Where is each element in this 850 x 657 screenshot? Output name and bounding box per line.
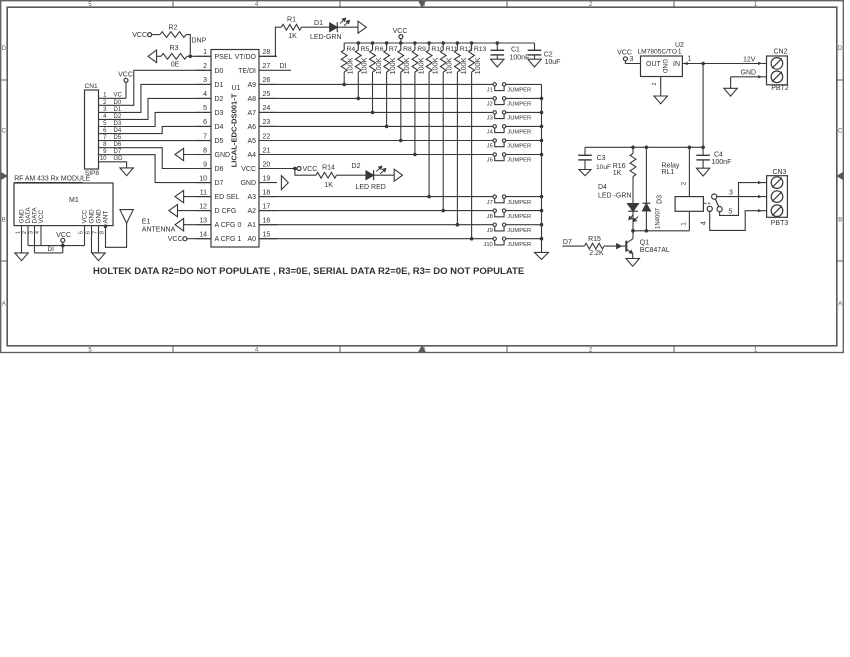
svg-text:100K: 100K	[374, 57, 383, 74]
svg-text:2: 2	[203, 63, 207, 70]
svg-text:D7: D7	[563, 239, 572, 246]
svg-text:JUMPER: JUMPER	[507, 228, 531, 234]
svg-text:ANT: ANT	[103, 211, 110, 224]
svg-text:D7: D7	[215, 180, 224, 187]
svg-text:B: B	[2, 218, 6, 224]
svg-text:A7: A7	[247, 110, 256, 117]
svg-text:GND: GND	[661, 59, 668, 74]
svg-text:R10: R10	[431, 46, 444, 53]
svg-text:3: 3	[29, 231, 35, 234]
svg-text:4: 4	[701, 221, 708, 225]
svg-text:100K: 100K	[360, 57, 369, 74]
svg-text:R1: R1	[287, 17, 296, 24]
svg-text:J3: J3	[487, 116, 493, 122]
svg-text:GND: GND	[215, 152, 231, 159]
svg-text:ED SEL: ED SEL	[215, 194, 240, 201]
svg-text:VCC: VCC	[132, 32, 147, 39]
svg-text:R6: R6	[375, 46, 384, 53]
svg-text:C: C	[2, 129, 7, 135]
svg-text:VCC: VCC	[118, 72, 133, 79]
svg-text:M1: M1	[69, 197, 79, 204]
svg-text:TE/DI: TE/DI	[238, 68, 256, 75]
svg-text:22: 22	[263, 133, 271, 140]
svg-text:100nF: 100nF	[712, 159, 732, 166]
svg-text:10: 10	[199, 175, 207, 182]
svg-text:D1: D1	[215, 82, 224, 89]
svg-text:6: 6	[86, 231, 92, 234]
svg-text:VCC: VCC	[241, 166, 256, 173]
svg-text:2: 2	[22, 231, 28, 234]
svg-text:LED -GRN: LED -GRN	[598, 192, 631, 199]
svg-text:8: 8	[100, 231, 106, 234]
svg-text:R12: R12	[460, 46, 473, 53]
svg-text:A6: A6	[247, 124, 256, 131]
svg-text:D CFG: D CFG	[215, 208, 237, 215]
svg-text:JUMPER: JUMPER	[507, 200, 531, 206]
svg-text:JUMPER: JUMPER	[507, 102, 531, 108]
svg-text:D1: D1	[314, 20, 323, 27]
svg-text:JUMPER: JUMPER	[507, 158, 531, 164]
svg-text:DNP: DNP	[192, 38, 207, 45]
svg-text:1: 1	[16, 231, 22, 234]
svg-text:PBT2: PBT2	[771, 85, 789, 92]
svg-text:5: 5	[203, 105, 207, 112]
svg-text:5: 5	[729, 209, 733, 216]
svg-text:R14: R14	[322, 164, 335, 171]
svg-text:A4: A4	[247, 152, 256, 159]
svg-text:R4: R4	[347, 46, 356, 53]
svg-text:0E: 0E	[171, 61, 180, 68]
svg-text:25: 25	[263, 91, 271, 98]
svg-text:J9: J9	[487, 228, 493, 234]
svg-text:23: 23	[263, 119, 271, 126]
svg-text:CN3: CN3	[772, 169, 786, 176]
svg-text:VCC: VCC	[393, 28, 408, 35]
svg-text:A CFG 0: A CFG 0	[215, 222, 242, 229]
svg-text:D6: D6	[215, 166, 224, 173]
svg-text:JUMPER: JUMPER	[507, 116, 531, 122]
svg-text:JUMPER: JUMPER	[507, 144, 531, 150]
svg-text:C2: C2	[544, 51, 553, 58]
svg-text:D: D	[2, 46, 7, 52]
svg-text:D4: D4	[215, 124, 224, 131]
svg-text:A8: A8	[247, 96, 256, 103]
svg-text:2: 2	[652, 82, 658, 85]
svg-text:100K: 100K	[416, 57, 425, 74]
svg-text:VCC: VCC	[303, 166, 318, 173]
svg-text:100K: 100K	[431, 57, 440, 74]
svg-text:100K: 100K	[459, 57, 468, 74]
svg-text:D2: D2	[352, 163, 361, 170]
svg-text:VCC: VCC	[168, 236, 183, 243]
svg-text:LM7805C/TO: LM7805C/TO	[638, 48, 677, 55]
svg-text:E1: E1	[142, 219, 151, 226]
svg-text:DI: DI	[48, 246, 55, 253]
svg-text:2.2K: 2.2K	[589, 250, 604, 257]
svg-text:J8: J8	[487, 214, 493, 220]
svg-text:A5: A5	[247, 138, 256, 145]
svg-text:JUMPER: JUMPER	[507, 130, 531, 136]
svg-text:D4: D4	[598, 184, 607, 191]
svg-text:Q1: Q1	[640, 239, 649, 246]
svg-text:RL1: RL1	[662, 169, 675, 176]
svg-text:1K: 1K	[613, 170, 622, 177]
svg-text:100K: 100K	[402, 57, 411, 74]
svg-text:LED RED: LED RED	[356, 184, 386, 191]
svg-text:CN2: CN2	[773, 49, 787, 56]
svg-text:10uF: 10uF	[545, 59, 561, 66]
svg-text:R9: R9	[417, 46, 426, 53]
svg-text:4: 4	[35, 231, 41, 234]
svg-text:BC847AL: BC847AL	[640, 247, 670, 254]
svg-text:PBT3: PBT3	[771, 220, 789, 227]
svg-text:A3: A3	[247, 194, 256, 201]
svg-text:LICAL-EDC-DS001-T: LICAL-EDC-DS001-T	[229, 93, 238, 167]
svg-text:3: 3	[630, 56, 634, 63]
svg-text:A CFG 1: A CFG 1	[215, 236, 242, 243]
svg-text:100K: 100K	[445, 57, 454, 74]
svg-text:DI: DI	[280, 63, 287, 70]
svg-text:J2: J2	[487, 102, 493, 108]
svg-text:J6: J6	[487, 158, 493, 164]
svg-text:18: 18	[263, 189, 271, 196]
svg-text:A: A	[2, 302, 6, 308]
svg-text:J1: J1	[487, 88, 493, 94]
svg-text:5: 5	[79, 231, 85, 234]
svg-text:2: 2	[680, 181, 687, 185]
svg-text:A2: A2	[247, 208, 256, 215]
svg-text:J4: J4	[487, 130, 494, 136]
svg-text:GND: GND	[96, 209, 103, 224]
svg-text:J5: J5	[487, 144, 493, 150]
svg-text:GND: GND	[240, 180, 256, 187]
svg-text:12V: 12V	[743, 57, 756, 64]
svg-text:CN1: CN1	[85, 83, 99, 90]
svg-text:19: 19	[263, 175, 271, 182]
svg-text:13: 13	[199, 218, 207, 225]
svg-text:JUMPER: JUMPER	[507, 88, 531, 94]
svg-text:D3: D3	[657, 195, 664, 204]
svg-text:VCC: VCC	[56, 232, 71, 239]
svg-text:7: 7	[203, 133, 207, 140]
svg-text:100K: 100K	[473, 57, 482, 74]
svg-text:C4: C4	[714, 151, 723, 158]
svg-text:RF AM 433 Rx MODULE: RF AM 433 Rx MODULE	[14, 176, 91, 183]
svg-text:R5: R5	[361, 46, 370, 53]
svg-text:20: 20	[263, 161, 271, 168]
svg-text:A9: A9	[247, 82, 256, 89]
svg-text:D: D	[838, 46, 843, 52]
svg-text:4: 4	[203, 91, 207, 98]
svg-text:R16: R16	[613, 163, 626, 170]
svg-text:U1: U1	[232, 85, 241, 92]
svg-text:PSEL: PSEL	[215, 54, 233, 61]
svg-text:D0: D0	[215, 68, 224, 75]
svg-text:7: 7	[93, 231, 99, 234]
svg-text:12: 12	[199, 203, 207, 210]
svg-text:1K: 1K	[324, 182, 333, 189]
svg-text:R8: R8	[403, 46, 412, 53]
svg-text:1N4007: 1N4007	[656, 207, 662, 229]
svg-text:VCC: VCC	[38, 210, 45, 224]
svg-text:D2: D2	[215, 96, 224, 103]
svg-text:JUMPER: JUMPER	[507, 242, 531, 248]
svg-text:17: 17	[263, 203, 271, 210]
svg-text:OUT: OUT	[646, 61, 662, 68]
svg-text:100K: 100K	[346, 57, 355, 74]
svg-text:HOLTEK DATA R2=DO NOT POPULATE: HOLTEK DATA R2=DO NOT POPULATE , R3=0E, …	[93, 266, 524, 277]
svg-text:R15: R15	[588, 236, 601, 243]
svg-text:100K: 100K	[388, 57, 397, 74]
svg-text:IN: IN	[673, 61, 680, 68]
svg-text:D5: D5	[215, 138, 224, 145]
svg-text:C3: C3	[597, 155, 606, 162]
svg-text:J10: J10	[483, 242, 492, 248]
svg-text:A: A	[838, 302, 842, 308]
svg-text:R3: R3	[170, 45, 179, 52]
svg-text:R13: R13	[474, 46, 487, 53]
svg-text:VT/DO: VT/DO	[235, 54, 257, 61]
svg-text:100nF: 100nF	[510, 54, 530, 61]
svg-text:11: 11	[200, 189, 207, 196]
svg-text:C1: C1	[511, 46, 520, 53]
svg-text:1K: 1K	[288, 33, 297, 40]
svg-text:R7: R7	[389, 46, 398, 53]
svg-text:24: 24	[263, 105, 271, 112]
svg-text:15: 15	[263, 232, 271, 239]
svg-text:J7: J7	[487, 200, 493, 206]
svg-text:ANTENNA: ANTENNA	[142, 227, 176, 234]
svg-text:28: 28	[263, 49, 271, 56]
svg-text:6: 6	[203, 119, 207, 126]
svg-text:C: C	[838, 129, 843, 135]
svg-text:3: 3	[729, 190, 733, 197]
svg-text:LED-GRN: LED-GRN	[310, 34, 342, 41]
svg-text:B: B	[838, 218, 842, 224]
svg-text:8: 8	[203, 147, 207, 154]
svg-text:R2: R2	[169, 24, 178, 31]
svg-text:A0: A0	[247, 236, 256, 243]
svg-text:GND: GND	[89, 209, 96, 224]
svg-text:R11: R11	[446, 46, 458, 53]
svg-text:1: 1	[203, 49, 207, 56]
svg-text:26: 26	[263, 77, 271, 84]
svg-text:3: 3	[203, 77, 207, 84]
svg-text:JUMPER: JUMPER	[507, 214, 531, 220]
svg-text:GND: GND	[741, 70, 757, 77]
svg-text:D3: D3	[215, 110, 224, 117]
svg-text:9: 9	[203, 161, 207, 168]
svg-text:16: 16	[263, 218, 271, 225]
svg-text:VCC: VCC	[82, 210, 89, 224]
svg-text:A1: A1	[247, 222, 256, 229]
svg-text:27: 27	[263, 63, 271, 70]
svg-text:10uF: 10uF	[596, 164, 611, 171]
svg-text:14: 14	[199, 232, 207, 239]
svg-text:1: 1	[680, 222, 687, 226]
svg-text:1: 1	[678, 48, 682, 55]
svg-text:21: 21	[263, 147, 271, 154]
svg-text:1: 1	[688, 56, 692, 63]
